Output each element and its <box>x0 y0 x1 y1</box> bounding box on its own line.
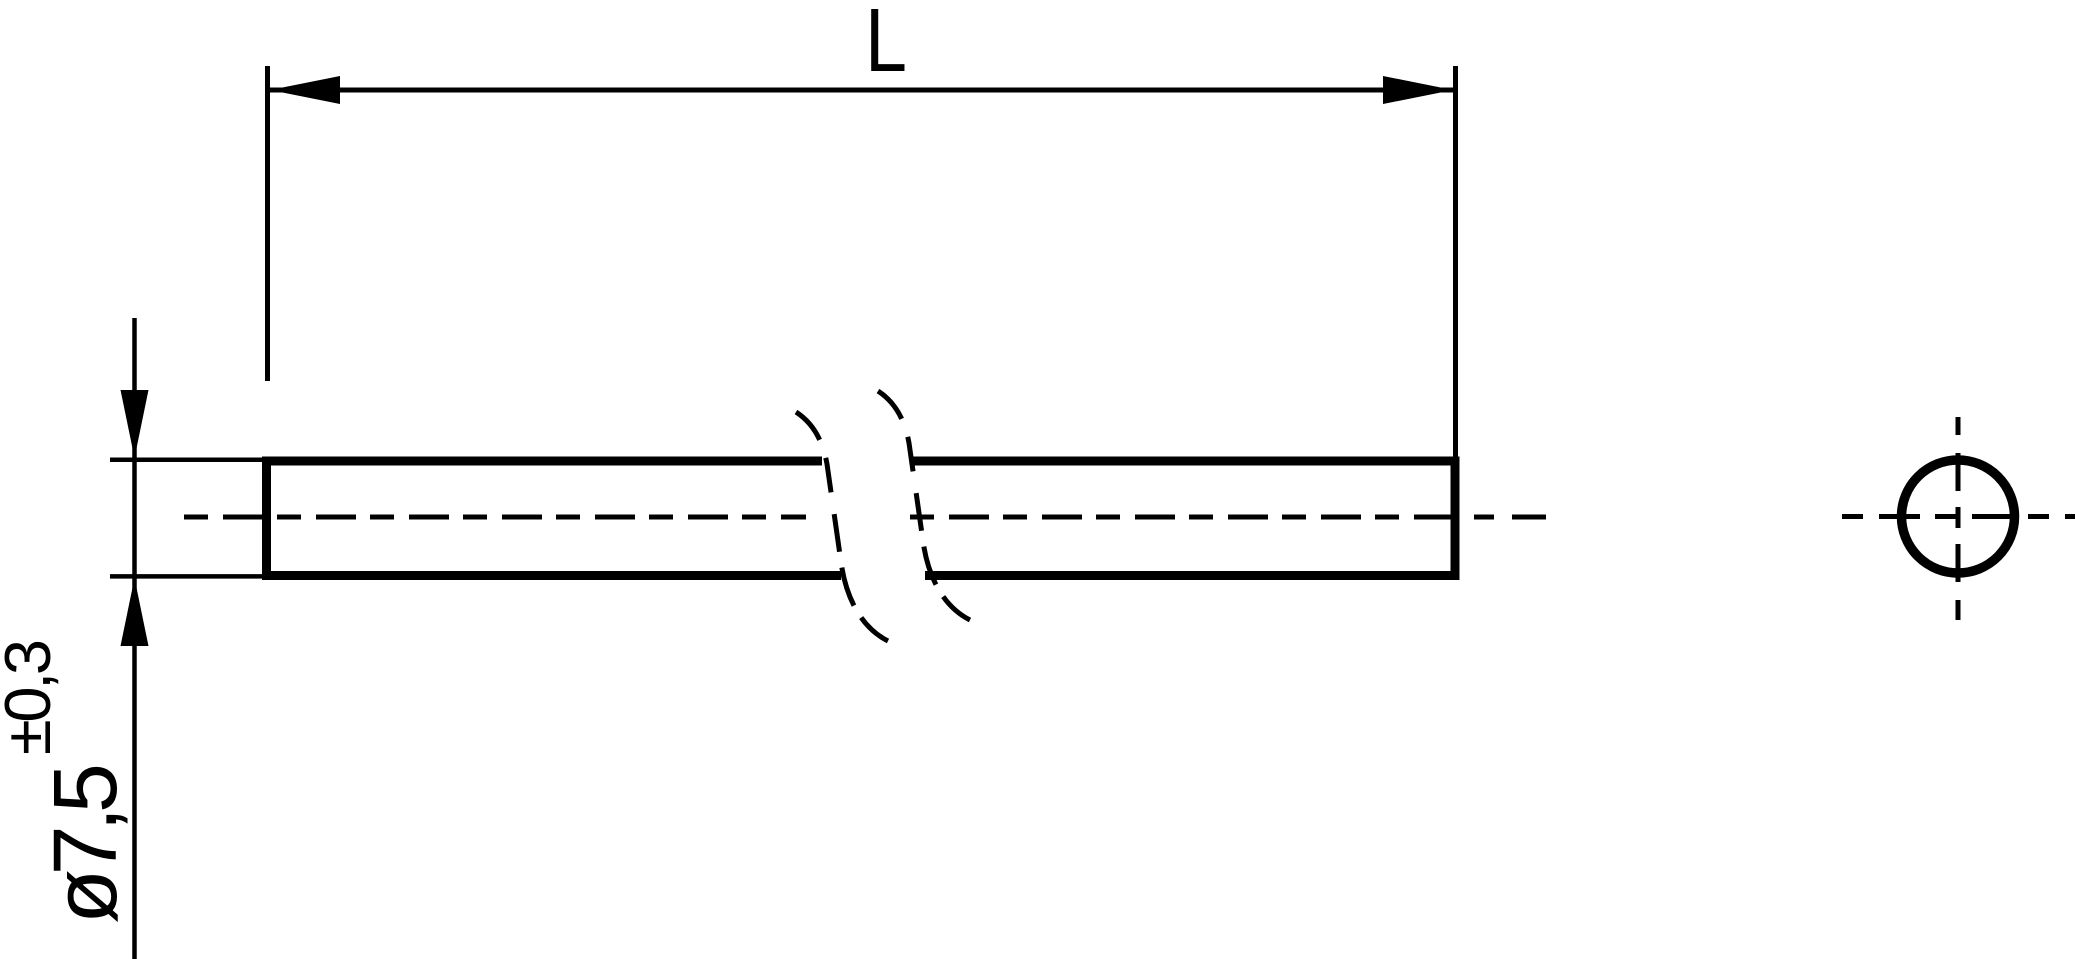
circle vertical centerline <box>1956 417 1961 620</box>
svg-text:±0,3: ±0,3 <box>0 639 64 755</box>
arrowhead right of L dimension <box>1383 76 1453 104</box>
arrowhead left of L dimension <box>270 76 340 104</box>
circle horizontal centerline <box>1842 514 2075 519</box>
dimension line L <box>270 88 1453 93</box>
rod bottom edge right segment <box>925 571 1460 580</box>
circle end view <box>1902 460 2015 573</box>
centerline left segment <box>184 515 806 520</box>
rod left edge <box>262 457 271 581</box>
extension line right of L dimension <box>1453 66 1458 457</box>
arrowhead up of diameter dimension <box>121 578 149 646</box>
centerline tail right of rod <box>1474 515 1546 520</box>
svg-text:ø7,5: ø7,5 <box>36 763 136 924</box>
arrowhead down of diameter dimension <box>121 390 149 458</box>
rod top edge left segment <box>262 457 822 466</box>
break line right <box>878 391 970 620</box>
extension line left of L dimension <box>265 66 270 381</box>
centerline right segment <box>910 515 1455 520</box>
svg-text:L: L <box>865 0 907 91</box>
extension line bottom of diameter dimension <box>110 574 263 579</box>
rod top edge right segment <box>912 457 1460 466</box>
dimension line diameter <box>132 318 137 959</box>
rod bottom edge left segment <box>262 571 841 580</box>
rod right edge <box>1451 457 1460 581</box>
extension line top of diameter dimension <box>110 458 263 463</box>
break line left <box>796 412 888 641</box>
